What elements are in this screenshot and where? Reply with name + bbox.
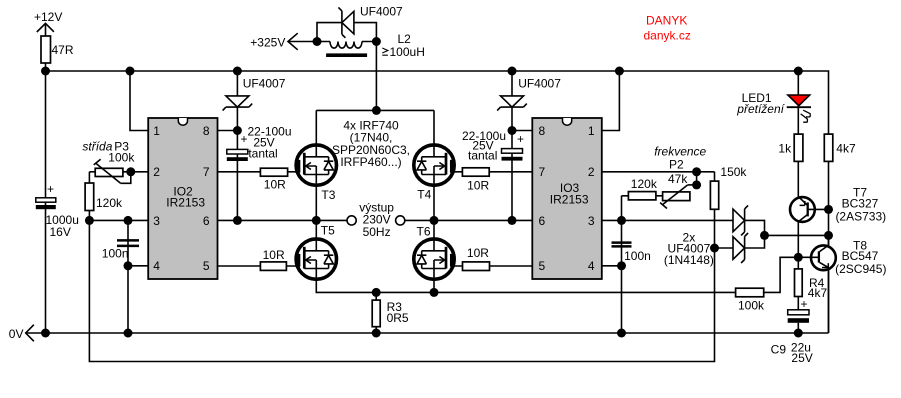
svg-text:(1N4148): (1N4148): [664, 253, 714, 267]
svg-text:+: +: [517, 132, 524, 146]
svg-text:frekvence: frekvence: [654, 145, 706, 159]
svg-text:IRFP460...): IRFP460...): [340, 155, 401, 169]
svg-text:25V: 25V: [791, 351, 812, 365]
svg-text:4k7: 4k7: [836, 141, 856, 155]
svg-text:100n: 100n: [102, 247, 129, 261]
svg-text:T4: T4: [417, 187, 431, 201]
svg-text:1k: 1k: [778, 141, 792, 155]
svg-text:120k: 120k: [631, 177, 658, 191]
svg-text:tantal: tantal: [248, 146, 277, 160]
svg-text:10R: 10R: [467, 246, 489, 260]
svg-text:0R5: 0R5: [387, 311, 409, 325]
svg-text:47k: 47k: [668, 172, 688, 186]
svg-text:8: 8: [539, 124, 546, 138]
svg-text:IR2153: IR2153: [166, 195, 205, 209]
svg-text:4k7: 4k7: [808, 286, 828, 300]
svg-text:IR2153: IR2153: [550, 192, 589, 206]
svg-text:2: 2: [153, 165, 160, 179]
svg-text:BC327: BC327: [842, 197, 879, 211]
svg-text:(2SC945): (2SC945): [835, 262, 886, 276]
svg-text:UF4007: UF4007: [243, 76, 286, 90]
svg-text:50Hz: 50Hz: [363, 225, 391, 239]
svg-text:+: +: [47, 182, 54, 196]
svg-text:100uH: 100uH: [390, 45, 425, 59]
svg-text:6: 6: [203, 214, 210, 228]
svg-text:DANYK: DANYK: [646, 14, 687, 28]
svg-text:100k: 100k: [738, 298, 765, 312]
svg-text:1: 1: [588, 124, 595, 138]
svg-text:2: 2: [588, 165, 595, 179]
svg-text:L2: L2: [398, 32, 412, 46]
svg-text:+12V: +12V: [34, 10, 62, 24]
svg-text:UF4007: UF4007: [360, 5, 403, 19]
svg-text:T3: T3: [321, 188, 335, 202]
svg-text:47R: 47R: [52, 43, 74, 57]
svg-text:3: 3: [153, 214, 160, 228]
svg-text:T6: T6: [417, 224, 431, 238]
svg-text:danyk.cz: danyk.cz: [644, 29, 691, 43]
svg-text:120k: 120k: [96, 196, 123, 210]
svg-text:+: +: [241, 132, 248, 146]
svg-text:6: 6: [539, 214, 546, 228]
svg-text:100k: 100k: [108, 151, 135, 165]
svg-text:+: +: [801, 297, 808, 311]
svg-text:16V: 16V: [50, 225, 71, 239]
svg-text:7: 7: [203, 165, 210, 179]
svg-text:10R: 10R: [263, 248, 285, 262]
svg-text:3: 3: [588, 214, 595, 228]
svg-text:150k: 150k: [720, 165, 747, 179]
svg-text:+325V: +325V: [250, 35, 285, 49]
svg-text:5: 5: [539, 259, 546, 273]
svg-text:4: 4: [153, 259, 160, 273]
svg-text:C9: C9: [771, 343, 787, 357]
svg-text:přetížení: přetížení: [736, 102, 785, 116]
svg-text:1: 1: [153, 124, 160, 138]
svg-text:(2AS733): (2AS733): [835, 210, 886, 224]
svg-text:10R: 10R: [264, 178, 286, 192]
svg-text:7: 7: [539, 165, 546, 179]
svg-text:0V: 0V: [9, 327, 24, 341]
svg-text:10R: 10R: [467, 178, 489, 192]
svg-text:100n: 100n: [624, 249, 651, 263]
svg-text:5: 5: [203, 259, 210, 273]
svg-text:4: 4: [588, 259, 595, 273]
svg-text:T5: T5: [321, 224, 335, 238]
svg-text:8: 8: [203, 124, 210, 138]
svg-text:P2: P2: [669, 158, 684, 172]
svg-text:tantal: tantal: [468, 149, 497, 163]
svg-text:UF4007: UF4007: [518, 76, 561, 90]
